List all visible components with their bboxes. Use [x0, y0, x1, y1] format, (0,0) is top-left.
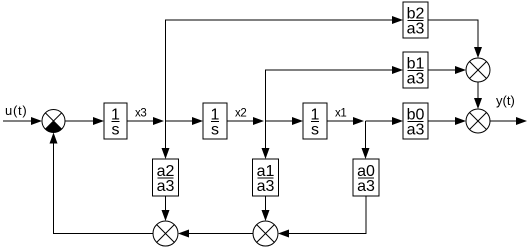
svg-text:s: s	[112, 122, 120, 139]
wire node x2 down to block A1	[262, 121, 270, 159]
wire S1 to integrator I1	[65, 117, 104, 125]
wire B1 output to summing junction S2	[428, 66, 466, 74]
svg-text:s: s	[311, 122, 319, 139]
wire I2 to node x2	[227, 117, 264, 125]
svg-text:a3: a3	[407, 21, 425, 38]
wire A2 output down to summing junction S4	[162, 196, 170, 221]
wire B2 output right and down to summing junction S2	[428, 20, 482, 58]
wire output y(t)	[490, 117, 527, 125]
block integrator I3 (1/s)	[303, 103, 327, 139]
block integrator I1 (1/s)	[104, 103, 127, 139]
wire S5 to summing junction S4	[178, 230, 253, 238]
node x2 vertical rail up and wire to block B1	[266, 66, 404, 121]
svg-text:u(t): u(t)	[5, 103, 28, 118]
svg-text:a3: a3	[157, 178, 175, 195]
block feedback gain A0 (a0/a3)	[353, 159, 379, 196]
wire node x2 to integrator I3	[266, 117, 304, 125]
summing junction S1 (input comparator)	[42, 110, 65, 133]
summing junction S3 (output adder bottom)	[466, 109, 490, 133]
wire input u(t) to summing junction S1	[3, 117, 42, 125]
block gain B1 (b1/a3)	[403, 52, 428, 88]
block integrator I2 (1/s)	[203, 103, 227, 139]
summing junction S2 (output adder top)	[466, 58, 490, 82]
block gain B0 (b0/a3)	[403, 103, 428, 139]
block feedback gain A1 (a1/a3)	[253, 159, 279, 196]
wire node x1 down to block A0	[362, 121, 370, 159]
svg-text:x2: x2	[235, 108, 246, 120]
wire A1 output down to summing junction S5	[262, 196, 270, 221]
svg-text:a3: a3	[407, 122, 425, 139]
wire node x3 to integrator I2	[166, 117, 204, 125]
block gain B2 (b2/a3)	[403, 2, 428, 38]
wire S2 down to summing junction S3	[474, 82, 482, 109]
svg-text:a3: a3	[407, 71, 425, 88]
feedback wire S4 left and up to S1	[50, 133, 154, 234]
wire I1 to node x3	[127, 117, 164, 125]
svg-text:x3: x3	[135, 108, 146, 120]
wire node x3 down to block A2	[162, 121, 170, 159]
wire I3 to node x1	[327, 117, 364, 125]
block feedback gain A2 (a2/a3)	[153, 159, 179, 196]
wire A0 output down and left to summing junction S5	[278, 196, 366, 238]
summing junction S5 (feedback adder right)	[253, 221, 278, 246]
svg-text:y(t): y(t)	[496, 93, 515, 108]
wire B0 output to summing junction S3	[428, 117, 466, 125]
svg-text:a3: a3	[357, 178, 375, 195]
summing junction S4 (feedback adder left)	[153, 221, 178, 246]
svg-text:x1: x1	[335, 108, 346, 120]
node x3 vertical rail up and top wire to block B2	[166, 16, 404, 121]
svg-text:s: s	[211, 122, 219, 139]
wire node x1 to block B0	[366, 117, 404, 125]
svg-text:a3: a3	[257, 178, 275, 195]
